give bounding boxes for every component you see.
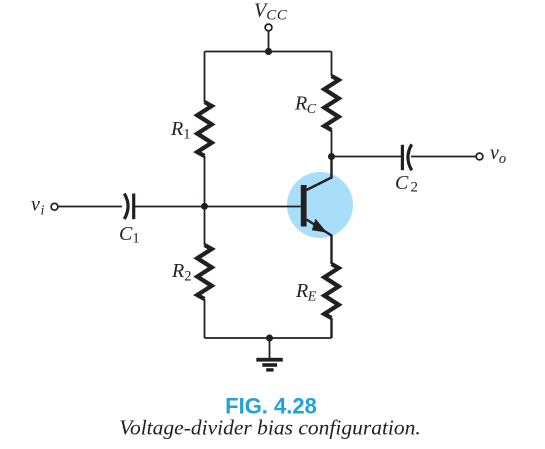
svg-text:vi: vi	[31, 194, 44, 219]
svg-text:Voltage-divider bias configura: Voltage-divider bias configuration.	[119, 415, 421, 439]
svg-text:VCC: VCC	[254, 0, 288, 24]
svg-text:RC: RC	[294, 92, 317, 117]
svg-text:R2: R2	[171, 260, 191, 284]
svg-text:C2: C2	[395, 172, 418, 196]
svg-text:C1: C1	[119, 223, 140, 247]
svg-text:vo: vo	[490, 142, 506, 167]
svg-text:RE: RE	[295, 280, 317, 305]
svg-text:R1: R1	[170, 118, 190, 143]
